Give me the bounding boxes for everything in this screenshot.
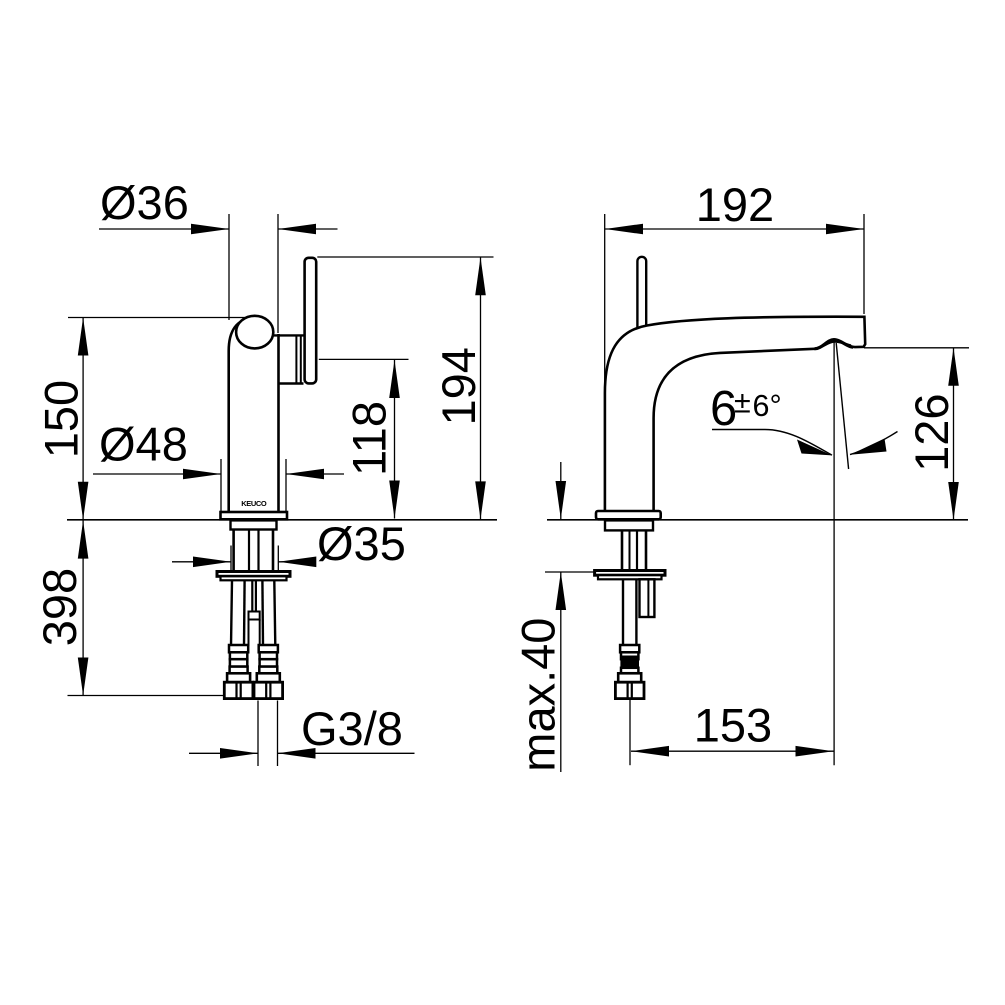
- svg-text:118: 118: [343, 401, 396, 476]
- svg-text:126: 126: [905, 393, 958, 471]
- svg-text:±: ±: [734, 386, 751, 420]
- svg-text:6°: 6°: [753, 389, 782, 423]
- svg-text:max.40: max.40: [512, 618, 565, 772]
- svg-text:192: 192: [696, 178, 774, 231]
- svg-text:Ø35: Ø35: [317, 517, 406, 570]
- svg-text:153: 153: [694, 698, 772, 751]
- svg-text:Ø36: Ø36: [100, 176, 189, 229]
- svg-text:398: 398: [33, 568, 86, 646]
- svg-text:G3/8: G3/8: [301, 702, 403, 755]
- svg-text:150: 150: [35, 380, 88, 458]
- svg-text:194: 194: [432, 347, 485, 425]
- svg-text:KEUCO: KEUCO: [241, 499, 267, 508]
- svg-text:Ø48: Ø48: [99, 418, 188, 471]
